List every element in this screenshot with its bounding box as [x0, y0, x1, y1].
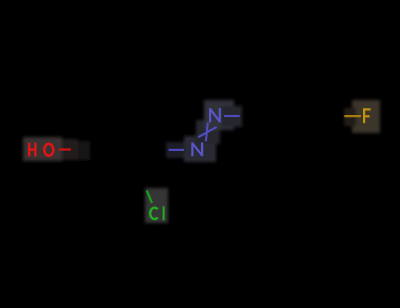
bond C3-Cl (green half) — [147, 190, 152, 203]
fluorine label F — [363, 108, 370, 123]
azo N (upper) — [210, 108, 220, 122]
bond C4'-F (gold half) — [344, 115, 361, 117]
bond N-C1' (blue half) — [224, 115, 240, 117]
N=N crossed double bond — [198, 123, 216, 142]
azo N (lower) — [192, 143, 202, 157]
hydroxyl label HO — [28, 143, 53, 157]
bond C4-N (blue half) — [169, 149, 184, 151]
bond O-C1 (red half) — [59, 148, 71, 150]
jpeg halo blocks (decorative) — [23, 100, 380, 223]
chlorine label Cl — [150, 206, 163, 220]
